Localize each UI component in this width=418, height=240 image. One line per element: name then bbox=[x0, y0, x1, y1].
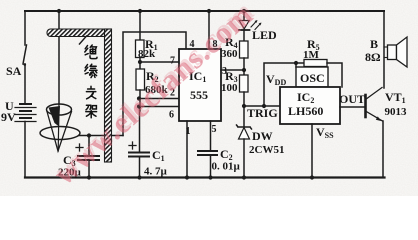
battery U 9V bbox=[15, 104, 36, 122]
plumb bob top ellipse bbox=[47, 104, 72, 115]
wire pin1 to ground bbox=[186, 121, 188, 178]
zener diode DW 2CW51 bbox=[237, 125, 252, 178]
wire battery to ground rail bbox=[24, 122, 26, 178]
svg-text:LED: LED bbox=[252, 28, 277, 42]
node R2 bottom pin2 bbox=[137, 96, 141, 100]
resistor R5 1M horizontal bbox=[296, 60, 342, 88]
capacitor C2 0.01u bbox=[198, 151, 217, 178]
wire VDD vertical bbox=[264, 63, 296, 106]
plumb bob cone bbox=[47, 112, 72, 152]
insulating bracket horizontal bar bbox=[47, 29, 107, 37]
wire SA to battery bbox=[24, 64, 26, 104]
transistor VT1 9013 bbox=[366, 88, 384, 178]
plumb bob axis bbox=[57, 104, 60, 151]
contact ring around bob bbox=[40, 127, 80, 140]
wire TRIG to IC2 bbox=[244, 105, 280, 107]
wire OUT to transistor base bbox=[340, 106, 365, 108]
node pin3/R4/R3 bbox=[242, 68, 246, 72]
svg-text:100: 100 bbox=[221, 82, 238, 94]
svg-text:9013: 9013 bbox=[385, 106, 408, 118]
wire sensor line up and to 555 pin4 bbox=[123, 32, 186, 136]
leader line to bracket bbox=[80, 36, 87, 44]
svg-text:OSC: OSC bbox=[300, 71, 325, 85]
svg-text:2CW51: 2CW51 bbox=[249, 144, 284, 156]
resistor R4 360 bbox=[240, 41, 249, 58]
label insulation bracket (drawn strokes) bbox=[85, 45, 97, 118]
LED bbox=[239, 11, 262, 41]
node C1 ground bbox=[137, 175, 141, 179]
svg-text:B: B bbox=[370, 37, 378, 51]
switch SA blade bbox=[23, 45, 27, 64]
node LED top rail bbox=[242, 9, 246, 13]
node DW ground bbox=[242, 175, 246, 179]
node C3 ground bbox=[87, 175, 91, 179]
resistor R3 100 bbox=[240, 75, 249, 92]
node VSS ground bbox=[310, 175, 314, 179]
node TRIG junction bbox=[242, 104, 246, 108]
wire top rail bbox=[25, 10, 384, 12]
wire left branch upper (SA top) bbox=[24, 11, 26, 45]
wire down to C1 bbox=[139, 107, 141, 153]
insulating bracket vertical bar bbox=[105, 29, 112, 162]
plumb bob shading bbox=[49, 106, 61, 127]
wire R4 to R3 bbox=[243, 58, 245, 75]
wire bottom rail (ground) bbox=[25, 176, 385, 178]
svg-text:TRIG: TRIG bbox=[247, 106, 278, 120]
svg-text:LH560: LH560 bbox=[288, 104, 323, 118]
wire pin5 to C2 bbox=[210, 121, 212, 151]
wire pin8 from top rail bbox=[208, 11, 210, 49]
node R1/R2 junction bbox=[138, 60, 142, 64]
OSC box bbox=[296, 67, 328, 87]
svg-text:5: 5 bbox=[212, 124, 217, 135]
node pin1 ground bbox=[185, 175, 189, 179]
node VDD wire on TRIG line bbox=[262, 104, 266, 108]
wire junction to pin2 bbox=[139, 98, 179, 100]
node R1 top rail bbox=[138, 9, 142, 13]
wire ring electrode to C3 and sensor line bbox=[79, 135, 123, 137]
svg-text:9V: 9V bbox=[1, 110, 16, 124]
svg-text:0. 01µ: 0. 01µ bbox=[212, 161, 241, 173]
wire OSC left stub bbox=[295, 63, 297, 67]
wire pin3 to R4/R3 junction bbox=[221, 69, 244, 71]
capacitor C3 220u bbox=[76, 136, 99, 178]
wire junction to pin7 bbox=[140, 61, 179, 63]
wire hanging electrode from top rail bbox=[58, 11, 60, 104]
svg-text:555: 555 bbox=[190, 88, 208, 102]
svg-text:OUT: OUT bbox=[339, 92, 365, 106]
node C2 ground bbox=[208, 175, 212, 179]
IC2 LH560 box bbox=[280, 87, 340, 124]
speaker B 8ohm bbox=[384, 37, 407, 67]
wire VSS to ground bbox=[311, 124, 313, 178]
svg-text:82k: 82k bbox=[138, 48, 156, 60]
node OSC left bbox=[294, 61, 298, 65]
svg-text:DW: DW bbox=[252, 129, 273, 143]
svg-text:1M: 1M bbox=[303, 49, 320, 61]
wire speaker branch from top rail bbox=[383, 11, 385, 88]
svg-text:SA: SA bbox=[6, 64, 22, 78]
op-amp IC1 555 box bbox=[179, 49, 221, 121]
svg-text:4. 7µ: 4. 7µ bbox=[144, 166, 168, 178]
resistor R2 680k bbox=[136, 69, 145, 111]
node top rail / hanging wire bbox=[57, 9, 61, 13]
svg-text:8Ω: 8Ω bbox=[365, 50, 381, 64]
node pin8 top rail bbox=[207, 9, 211, 13]
wire R3 down to TRIG node bbox=[243, 92, 245, 126]
wire junction to pin6 bbox=[139, 106, 179, 108]
capacitor C1 4.7u bbox=[129, 142, 149, 178]
watermark www.elecfans.com bbox=[47, 0, 261, 191]
svg-text:6: 6 bbox=[169, 110, 174, 121]
node ring wire / C3 bbox=[87, 133, 91, 137]
resistor R1 82k bbox=[136, 11, 145, 69]
svg-text:1: 1 bbox=[186, 126, 191, 137]
node pin6 junction bbox=[137, 104, 141, 108]
